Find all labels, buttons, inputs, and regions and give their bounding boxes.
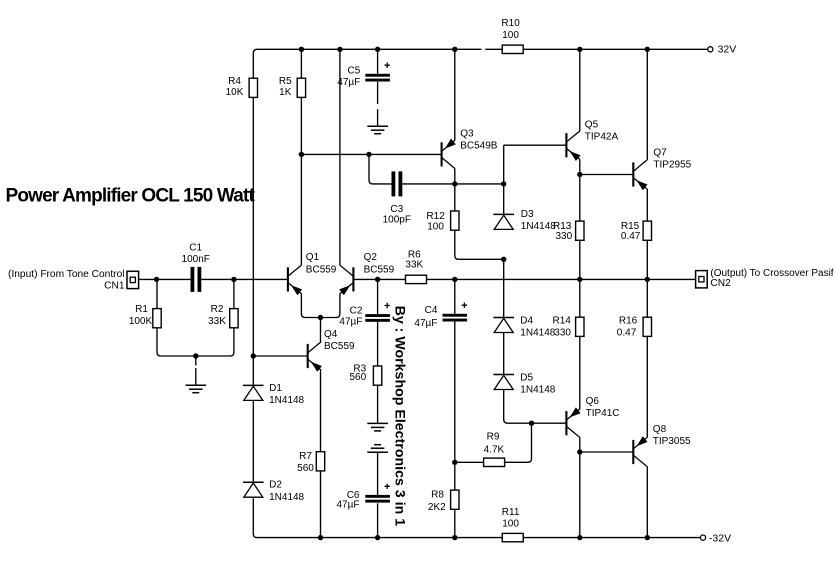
svg-text:TIP41C: TIP41C [586,408,620,419]
svg-text:R2: R2 [211,304,224,315]
wire D5 to Q6 base [504,390,567,423]
wire R2 top lead [233,279,235,308]
svg-text:47µF: 47µF [339,316,362,327]
wire Q3 collector column [454,49,456,140]
svg-text:By : Workshop Electronics 3 in: By : Workshop Electronics 3 in 1 [391,306,407,527]
node node L (Q5 em/Q7 base/R13) [577,172,582,177]
svg-text:R7: R7 [299,451,312,462]
svg-text:100K: 100K [129,316,153,327]
wire Q5 emitter lead [579,159,581,174]
wire input ground stub b [195,368,197,385]
resistor R12 [451,211,459,230]
svg-text:C3: C3 [390,204,403,215]
svg-text:CN2: CN2 [710,278,731,289]
wire C4 top lead [454,279,456,313]
svg-text:330: 330 [554,327,571,338]
wire R5 top lead [300,49,302,78]
svg-text:1N4148: 1N4148 [520,327,555,338]
resistor R15 [643,221,651,240]
svg-text:C5: C5 [348,65,361,76]
resistor R1 [153,309,161,328]
wire -32V bottom rail right segment [523,537,700,539]
wire R13 bottom lead [579,240,581,279]
terminal 32V terminal [708,47,713,52]
svg-text:Q4: Q4 [324,329,338,340]
wire -32V bottom rail left segment [253,498,502,537]
svg-text:R16: R16 [619,315,638,326]
svg-text:0.47: 0.47 [621,231,641,242]
wire main mid rail Q2 base to R6 [353,278,405,280]
svg-text:Q2: Q2 [364,252,378,263]
svg-text:R12: R12 [426,211,445,222]
svg-text:Power Amplifier OCL 150 Watt: Power Amplifier OCL 150 Watt [6,186,256,207]
svg-text:D5: D5 [520,372,533,383]
svg-text:R9: R9 [487,432,500,443]
svg-text:4.7K: 4.7K [484,445,505,456]
node node D (R4/D1/Q4 base) [251,353,256,358]
transistor Q8 TIP3055 [633,436,647,466]
wire D3 top lead [503,145,505,214]
diode D3 1N4148 [493,214,514,229]
resistor R5 [297,78,305,97]
transistor Q3 BC549B [442,139,456,169]
capacitor C2 47uF [365,303,390,322]
svg-text:R10: R10 [501,18,520,29]
node node I (Q3/C3/R12) [452,181,457,186]
svg-text:C2: C2 [350,305,363,316]
node node N (C4/R9/R8) [452,460,457,465]
ground (C6, inverted) [367,445,388,453]
wire +32V top rail right segment [523,48,707,50]
svg-text:BC559: BC559 [364,265,395,276]
svg-text:Q1: Q1 [306,252,320,263]
svg-text:1N4148: 1N4148 [269,395,304,406]
wire R12 bottom lead [455,230,504,259]
wire R8 bottom lead [454,509,456,537]
node node Q3 top rail [452,47,457,52]
resistor R13 [576,221,584,240]
wire R8 top lead [454,462,456,490]
svg-text:TIP42A: TIP42A [585,131,619,142]
svg-text:1K: 1K [279,87,292,98]
svg-text:100pF: 100pF [383,214,411,225]
svg-text:1N4148: 1N4148 [269,492,304,503]
svg-text:47µF: 47µF [337,500,360,511]
svg-text:Q5: Q5 [585,119,599,130]
svg-text:C1: C1 [189,242,202,253]
svg-text:32V: 32V [718,43,737,55]
diode D4 1N4148 [493,318,514,333]
wire D1 top lead [252,356,254,385]
wire R14 top lead [579,279,581,317]
node input ground node [193,353,198,358]
wire R1 bottom lead [157,328,196,356]
svg-text:1N4148: 1N4148 [521,221,556,232]
wire R9 right wire [505,423,532,462]
svg-text:C4: C4 [425,305,438,316]
capacitor C3 100pF [392,171,403,196]
node node Q8 bottom rail [645,535,650,540]
wire C2 top lead [377,279,379,314]
svg-text:1N4148: 1N4148 [520,384,555,395]
svg-text:2K2: 2K2 [428,502,446,513]
wire R7 bottom lead [320,471,322,538]
svg-text:BC559: BC559 [306,265,337,276]
node node E (R5/Q3 base tap) [299,152,304,157]
node node C6 bottom [375,535,380,540]
wire C6 top lead [377,452,379,495]
resistor R3 [373,366,381,385]
resistor R9 [484,458,505,466]
wire Q7 base wire [580,174,634,176]
wire R12 top lead [454,184,456,211]
wire R13 top lead [579,175,581,222]
wire +32V top rail at R10 [485,48,502,50]
transistor Q7 TIP2955 [633,160,647,190]
wire C2 to R3 [377,322,379,366]
wire Q4 base wire [253,355,307,357]
capacitor C6 47uF [365,484,390,503]
svg-text:R5: R5 [279,76,292,87]
svg-text:TIP3055: TIP3055 [653,436,691,447]
node node G (Q2 base/C2/R6) [375,277,380,282]
ground (C5) [367,126,388,134]
svg-text:100: 100 [427,222,444,233]
node node Q2 collector rail [337,47,342,52]
transistor Q5 TIP42A [566,131,580,161]
wire Q8 emitter lead [646,466,648,537]
wire input ground stub a [195,356,197,366]
wire R9 left wire [455,461,484,463]
svg-text:10K: 10K [226,87,244,98]
node node R5 top [299,47,304,52]
svg-text:100: 100 [502,518,519,529]
wire Q7 collector column [646,49,648,160]
svg-text:R4: R4 [228,76,241,87]
svg-text:Q8: Q8 [653,424,667,435]
svg-text:100nF: 100nF [182,254,210,265]
svg-text:560: 560 [297,463,314,474]
node node R7 bottom [318,535,323,540]
wire Q1 emitter to node F [301,294,320,318]
wire D1 to D2 [252,401,254,482]
node node Q5 rail [577,47,582,52]
svg-text:33K: 33K [208,316,226,327]
wire +32V top rail left segment [253,49,481,78]
wire main mid rail input segment [139,278,191,280]
connector CN2 [696,271,708,288]
resistor R10 [502,45,523,53]
wire node F to Q4 collector [320,318,322,342]
node node M (C4 top) [452,277,457,282]
wire R5 to Q1 collector [300,97,302,265]
terminal -32V terminal [700,535,705,540]
svg-text:(Input) From Tone Control: (Input) From Tone Control [8,269,124,280]
svg-text:D3: D3 [521,209,534,220]
diode D2 1N4148 [243,482,264,497]
node node Q7 rail [645,47,650,52]
resistor R4 [249,78,257,97]
node node F (emitters/Q4 collector) [318,315,323,320]
svg-text:R14: R14 [553,315,572,326]
wire Q2 collector column [339,49,341,265]
wire C6 bottom lead [377,503,379,537]
svg-text:D1: D1 [269,383,282,394]
svg-text:R1: R1 [135,304,148,315]
node node H (C3 tap) [366,152,371,157]
wire D4 to D5 [503,333,505,375]
svg-text:BC549B: BC549B [460,141,498,152]
svg-text:0.47: 0.47 [617,327,637,338]
wire Q7 emitter to R15 [646,189,648,221]
wire C5 bottom lead a [377,82,379,104]
capacitor C1 100nF [191,267,202,292]
resistor R8 [451,490,459,509]
node node Q6 bottom rail [577,535,582,540]
wire C4 to node N [454,322,456,463]
svg-text:47µF: 47µF [337,77,360,88]
svg-text:TIP2955: TIP2955 [653,160,691,171]
wire Q5 collector column [579,49,581,131]
wire R16 top lead [646,279,648,317]
wire R3 bottom lead [377,385,379,423]
svg-text:100: 100 [502,30,519,41]
transistor Q1 BC559 [288,265,302,295]
wire Q3 base wire [301,153,441,155]
wire Q8 base wire [580,451,634,453]
svg-text:D2: D2 [269,480,282,491]
node node B (C1/R2/Q1) [231,277,236,282]
node node J (C3/D3) [501,181,506,186]
svg-text:BC559: BC559 [324,341,355,352]
node node R13 mid rail [577,277,582,282]
svg-text:47µF: 47µF [414,318,437,329]
svg-text:Q7: Q7 [653,148,667,159]
transistor Q4 BC559 [308,342,322,372]
svg-text:-32V: -32V [709,532,731,544]
wire D3 to D4 (crosses mid rail) [503,259,505,317]
wire R1 top lead [156,279,158,308]
wire Q6 emitter lead [579,437,581,537]
wire C5 bottom lead b [377,109,379,126]
diode D1 1N4148 [243,385,264,400]
connector CN1 [127,271,139,288]
resistor R2 [230,309,238,328]
ground (R3) [367,423,388,431]
node node R8 bottom [452,535,457,540]
node node C5 top [375,47,380,52]
wire Q2 emitter to node F [321,294,340,318]
wire Q3 emitter lead [454,169,456,184]
svg-text:33K: 33K [405,260,423,271]
node node K (D3/R12) [501,257,506,262]
transistor Q6 TIP41C [566,407,580,437]
svg-text:CN1: CN1 [104,281,125,292]
node node O (R9/Q6 base) [529,421,534,426]
node input node A [154,277,159,282]
resistor R6 [406,275,427,283]
svg-text:R11: R11 [502,507,520,518]
svg-text:330: 330 [556,231,573,242]
svg-text:560: 560 [350,372,367,383]
wire R14 to Q6 collector [579,336,581,409]
wire C3 left wire [369,154,392,184]
svg-text:Q6: Q6 [586,396,600,407]
resistor R16 [643,317,651,336]
resistor R11 [502,533,523,541]
capacitor C5 47uF [365,63,390,82]
wire main mid rail C1 to Q1 [201,278,288,280]
wire main mid rail R6 to CN2 [427,278,696,280]
diode D5 1N4148 [493,375,514,390]
resistor R7 [316,452,324,471]
wire R4 bottom column [252,97,254,356]
wire R15 bottom lead [646,240,648,279]
capacitor C4 47uF [443,303,468,322]
svg-text:Q3: Q3 [460,129,474,140]
wire C5 top lead [377,49,379,74]
wire Q4 emitter to R7 [320,370,322,452]
wire C3 right wire [402,183,504,185]
node node P (Q6 em/Q8 base) [577,449,582,454]
wire R2 bottom lead [196,328,234,356]
svg-text:D4: D4 [520,315,533,326]
resistor R14 [576,317,584,336]
wire Q5 base wire [504,144,567,146]
wire R16 to Q8 collector [646,336,648,437]
transistor Q2 BC559 [339,265,353,295]
svg-text:R8: R8 [431,489,444,500]
ground (input) [186,385,207,393]
node node R15 mid rail [645,277,650,282]
